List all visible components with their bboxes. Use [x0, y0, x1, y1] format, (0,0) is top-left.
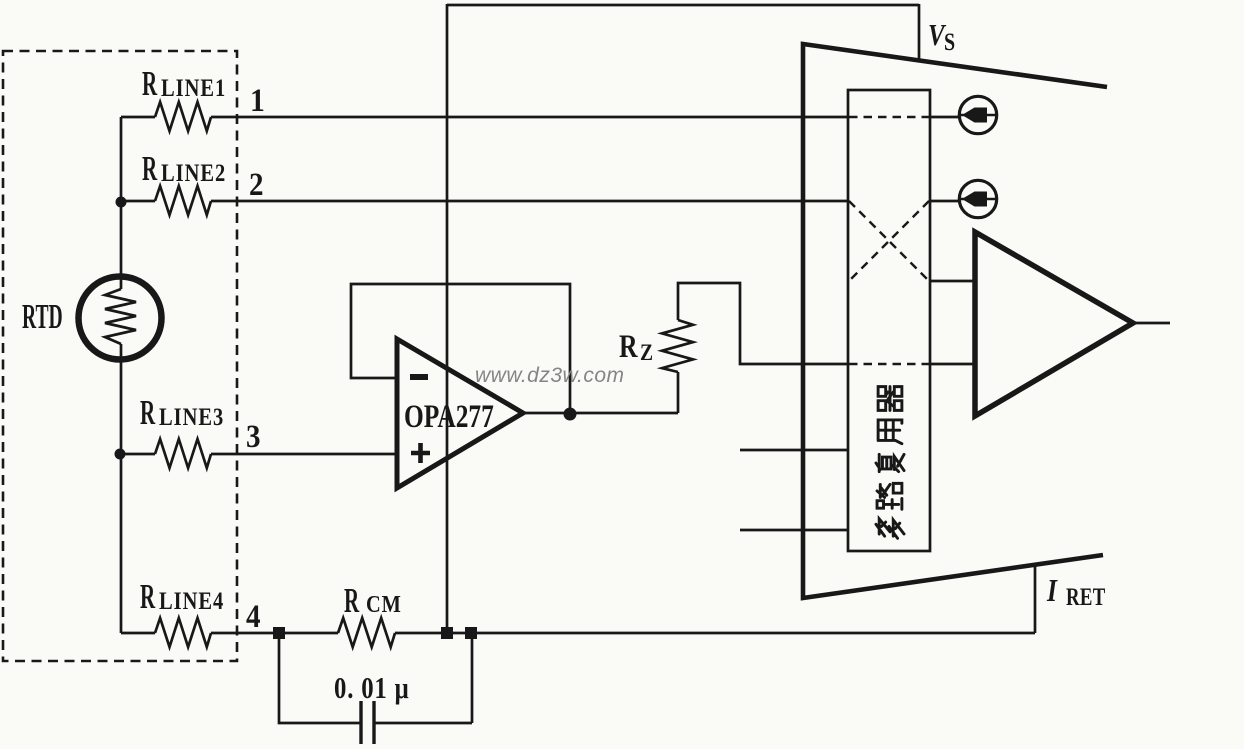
svg-text:LINE1: LINE1 — [161, 74, 226, 101]
svg-text:LINE2: LINE2 — [161, 159, 226, 186]
svg-text:R: R — [344, 582, 360, 621]
svg-text:4: 4 — [246, 597, 261, 634]
svg-text:Z: Z — [640, 340, 653, 366]
svg-text:R: R — [140, 578, 156, 617]
svg-text:2: 2 — [249, 165, 264, 202]
svg-text:RTD: RTD — [22, 298, 63, 336]
svg-text:3: 3 — [246, 417, 261, 454]
svg-text:R: R — [142, 65, 158, 104]
svg-text:CM: CM — [366, 590, 402, 617]
svg-text:LINE4: LINE4 — [159, 587, 224, 614]
svg-text:0. 01 μ: 0. 01 μ — [334, 671, 409, 705]
svg-text:R: R — [619, 329, 638, 365]
svg-text:LINE3: LINE3 — [159, 403, 224, 430]
svg-text:OPA277: OPA277 — [404, 399, 494, 435]
svg-text:www.dz3w.com: www.dz3w.com — [475, 364, 625, 387]
svg-text:R: R — [140, 394, 156, 433]
svg-text:1: 1 — [250, 82, 265, 119]
svg-text:I: I — [1046, 573, 1058, 608]
svg-text:RET: RET — [1066, 582, 1106, 610]
svg-text:S: S — [944, 28, 955, 56]
svg-text:R: R — [142, 150, 158, 189]
